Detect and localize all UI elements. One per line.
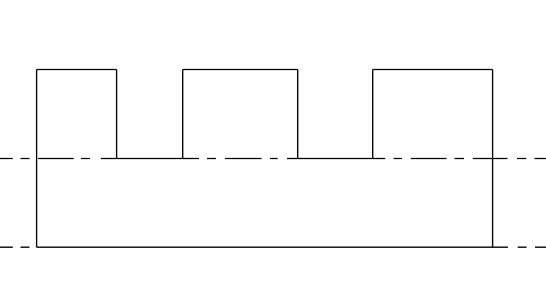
tooth 3 left side	[372, 70, 374, 159]
bottom edge with dash-dot extensions	[0, 246, 546, 248]
tooth 2 right side	[297, 70, 299, 159]
part right edge (tooth 3 right side)	[492, 70, 494, 248]
part left edge (tooth 1 left side)	[36, 70, 38, 248]
pitch centerline with visible top edges between teeth (dash-dot)	[0, 158, 546, 160]
tooth 3 top edge	[373, 69, 493, 71]
tooth 1 top edge	[37, 69, 117, 71]
tooth 1 right side	[116, 70, 118, 159]
tooth 2 top edge	[183, 69, 298, 71]
tooth 2 left side	[182, 70, 184, 159]
